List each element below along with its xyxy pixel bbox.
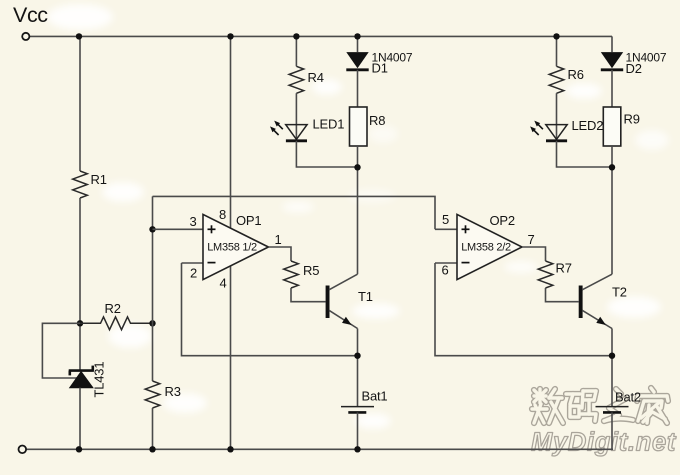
svg-text:8: 8: [219, 207, 226, 222]
node rail R4 branch: [293, 33, 299, 39]
wire D2 to R9: [611, 70, 613, 107]
svg-text:R7: R7: [556, 261, 572, 276]
wire T1 emitter down: [357, 329, 359, 407]
resistor R2: [80, 301, 153, 330]
wire R7 to T2 base: [546, 288, 579, 302]
node T2 emitter / feedback: [609, 353, 615, 359]
svg-text:R9: R9: [624, 112, 640, 127]
wire D1 to R8: [357, 70, 359, 107]
svg-text:2: 2: [190, 266, 197, 281]
wire reference node vertical: [152, 196, 154, 381]
wire op-amp pin4 to rail: [230, 266, 232, 450]
svg-text:R6: R6: [568, 67, 584, 82]
svg-text:D2: D2: [626, 61, 642, 76]
diode D2 1N4007: [601, 51, 667, 77]
wire OP2 pin5 input: [435, 228, 457, 230]
node R1/R2/TL431 junction: [77, 320, 83, 326]
svg-text:4: 4: [220, 276, 227, 291]
wire R1 branch upper: [79, 36, 81, 171]
wire R9 to T2 collector node: [611, 146, 613, 167]
wire R3 to rail: [152, 408, 154, 449]
node LED1/R8/T1: [354, 164, 360, 170]
svg-text:T2: T2: [612, 285, 627, 300]
wire R6 to LED2: [556, 93, 558, 141]
wire LED2 to R9 node: [557, 141, 613, 167]
node rail R6 branch: [553, 33, 559, 39]
resistor R5: [284, 261, 320, 288]
svg-text:LM358 1/2: LM358 1/2: [207, 242, 257, 254]
node rail pin8 branch: [227, 33, 233, 39]
transistor T2: [579, 274, 627, 328]
wire top rail Vcc: [30, 35, 613, 37]
wire D2 branch top: [611, 36, 613, 52]
TL431 U2: [69, 362, 107, 398]
wire T2 collector up: [611, 167, 613, 274]
wire D1 branch top: [357, 36, 359, 52]
svg-text:Bat2: Bat2: [615, 390, 641, 405]
wire T2 emitter down: [611, 329, 613, 407]
wire pin3 input: [153, 228, 204, 230]
svg-text:R5: R5: [303, 263, 319, 278]
svg-text:R3: R3: [165, 384, 181, 399]
node rail pin4: [227, 446, 233, 452]
wire R4 to LED1: [295, 93, 297, 141]
svg-text:7: 7: [528, 232, 535, 247]
svg-text:TL431: TL431: [92, 362, 107, 398]
transistor T1: [326, 274, 373, 328]
node T1 emitter / feedback: [354, 353, 360, 359]
node R2/R3 junction: [149, 320, 155, 326]
wire bottom rail: [26, 448, 613, 450]
resistor R7: [538, 261, 572, 289]
svg-text:6: 6: [442, 263, 449, 278]
svg-text:R2: R2: [105, 301, 121, 316]
wire pin2 feedback down: [182, 263, 358, 356]
wire OP2 pin6 input: [435, 262, 457, 264]
node rail Bat1: [354, 446, 360, 452]
wire OP2 output: [522, 247, 546, 261]
node bottom terminal: [19, 446, 27, 454]
wire OP1 output: [268, 247, 291, 261]
svg-text:MyDigit.net: MyDigit.net: [531, 429, 677, 457]
op-amp OP1: [190, 207, 282, 291]
wire Bat1 to rail: [357, 412, 359, 449]
svg-text:LM358 2/2: LM358 2/2: [461, 242, 511, 254]
wire T1 collector up: [357, 167, 359, 274]
resistor R1: [73, 171, 107, 198]
svg-text:Vcc: Vcc: [13, 3, 48, 27]
node pin3 tap: [149, 226, 155, 232]
node rail R3: [149, 446, 155, 452]
svg-text:5: 5: [442, 212, 449, 227]
op-amp OP2: [442, 212, 535, 280]
wire reference horizontal to OP2: [153, 196, 436, 229]
svg-text:1: 1: [275, 232, 282, 247]
resistor R6: [549, 66, 584, 93]
wire R4 branch top: [295, 36, 297, 66]
battery Bat1: [341, 389, 387, 413]
wire TL431 ref loop: [42, 323, 80, 378]
resistor R3: [145, 381, 181, 408]
wire R5 to T1 base: [291, 288, 326, 302]
wire OP2 pin6 feedback: [435, 263, 612, 356]
wire R6 branch top: [556, 36, 558, 66]
svg-text:OP1: OP1: [236, 213, 261, 228]
wire LED1 to R8 node: [296, 141, 357, 167]
svg-text:T1: T1: [358, 289, 373, 304]
node LED2/R9/T2: [609, 164, 615, 170]
svg-text:R8: R8: [369, 113, 385, 128]
battery Bat2: [596, 390, 641, 413]
resistor R4: [289, 66, 324, 93]
node rail D1 branch: [354, 33, 360, 39]
node Vcc terminal: [22, 33, 29, 40]
resistor R9: [603, 107, 639, 146]
svg-text:D1: D1: [372, 61, 388, 76]
LED LED1: [270, 117, 344, 141]
diode D1 1N4007: [346, 51, 413, 76]
svg-text:OP2: OP2: [490, 213, 515, 228]
wire TL431 anode to rail: [79, 388, 81, 450]
node rail R1 branch: [76, 33, 82, 39]
node rail bottom left: [76, 446, 82, 452]
wire op-amp pin8 supply: [230, 36, 232, 227]
svg-text:R4: R4: [308, 70, 324, 85]
wire R1 bottom to TL431 node: [79, 198, 81, 371]
LED LED2: [530, 118, 603, 141]
svg-text:R1: R1: [91, 172, 107, 187]
svg-text:LED1: LED1: [313, 117, 345, 132]
wire Bat2 to rail: [611, 412, 613, 449]
svg-text:LED2: LED2: [572, 118, 604, 133]
svg-text:3: 3: [190, 214, 197, 229]
resistor R8: [350, 107, 386, 146]
svg-text:Bat1: Bat1: [362, 389, 388, 404]
wire pin2 input: [182, 262, 204, 264]
wire R8 to T1 collector node: [357, 146, 359, 167]
